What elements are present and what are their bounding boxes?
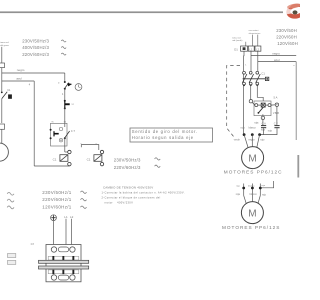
coil voltage list (114, 158, 141, 170)
svg-text:220V/60Hz/3: 220V/60Hz/3 (114, 165, 141, 170)
svg-text:L1: L1 (64, 215, 68, 219)
motor2 junction dots (242, 187, 245, 190)
coil voltage tildes (155, 158, 161, 168)
top-left feeder label (0, 41, 9, 47)
svg-text:220V/60Hz/3: 220V/60Hz/3 (22, 52, 49, 57)
svg-text:L2: L2 (70, 215, 74, 219)
motor M1 (242, 147, 264, 169)
stray bus tabs far left (8, 254, 16, 258)
svg-text:2-Conectar el bloque de conexi: 2-Conectar el bloque de conexiones del (102, 195, 161, 199)
svg-text:toma red: toma red (0, 41, 9, 44)
lever (259, 107, 264, 113)
svg-text:C1: C1 (87, 157, 91, 161)
svg-text:C.F: C.F (274, 123, 279, 126)
svg-text:roja: roja (261, 128, 266, 131)
svg-text:MOTORES PP6/12C: MOTORES PP6/12C (224, 170, 283, 175)
negro line right (251, 55, 296, 57)
svg-text:negro: negro (17, 68, 25, 72)
sentido box (130, 128, 213, 142)
L1 wire (250, 51, 252, 72)
svg-text:MOTORES PP6/12S: MOTORES PP6/12S (222, 225, 280, 230)
svg-text:del gener: del gener (0, 44, 9, 47)
svg-text:D1: D1 (234, 47, 238, 51)
svg-text:con motori: con motori (249, 29, 259, 32)
svg-text:1-Conectar la bobina del conta: 1-Conectar la bobina del contactor n. A4… (102, 190, 185, 194)
wire left drop 2 (1, 99, 3, 123)
svg-text:M: M (248, 208, 256, 219)
svg-text:blanco: blanco (249, 126, 257, 129)
right edge drop wire (295, 62, 297, 140)
svg-text:230V/50H: 230V/50H (276, 28, 297, 33)
centrifugal switch assembly (249, 96, 279, 120)
svg-text:negro: negro (272, 52, 280, 56)
svg-text:400V/50Hz/3: 400V/50Hz/3 (22, 45, 49, 50)
motor M2 (241, 202, 263, 224)
svg-text:u: u (96, 143, 97, 145)
bottom control line (34, 165, 69, 167)
svg-text:roja: roja (268, 129, 273, 132)
motor1 stubs (244, 135, 248, 148)
svg-text:220V/60Hz/1: 220V/60Hz/1 (42, 197, 72, 202)
right edge mark (297, 155, 299, 178)
wire to left motor (1, 129, 3, 143)
azul line (2, 80, 34, 82)
motor2 wires (243, 184, 245, 196)
svg-text:120V/60Hz/1: 120V/60Hz/1 (42, 204, 72, 209)
contact C.T (50, 129, 76, 138)
centrifugal contact bold (64, 100, 75, 110)
svg-text:azul: azul (16, 77, 22, 81)
verde wire (243, 51, 245, 134)
small box left (0, 124, 5, 129)
terminal strip D1 (234, 46, 261, 51)
feeder wire (1, 47, 3, 63)
negro line (2, 72, 65, 74)
motor1 junction dots (243, 133, 246, 136)
wire (64, 89, 66, 101)
svg-text:blanco: blanco (250, 193, 258, 196)
svg-text:Sentido de giro del motor.: Sentido de giro del motor. (132, 129, 198, 134)
control drop wire (64, 73, 66, 82)
L2 wire (257, 51, 259, 72)
svg-text:V.B-B: V.B-B (273, 112, 279, 115)
wire (64, 138, 66, 152)
svg-text:220V/60H: 220V/60H (276, 34, 297, 39)
wire (64, 108, 66, 127)
contactor C1 3ph (242, 71, 268, 86)
svg-text:u: u (80, 143, 81, 145)
svg-text:red (verde): red (verde) (232, 39, 242, 42)
wire left drop (1, 68, 3, 92)
svg-text:120V/60H: 120V/60H (277, 41, 298, 46)
cambio de tension note (102, 185, 185, 204)
junction (64, 137, 66, 139)
left voltage list (3-phase) (22, 39, 49, 57)
azul line right (258, 61, 296, 63)
logo (284, 2, 307, 21)
pole 2 (249, 71, 252, 74)
svg-text:96: 96 (64, 122, 66, 124)
feeder box (0, 63, 5, 68)
switch C1 aux (far left) (1, 89, 12, 99)
svg-text:rojo: rojo (262, 193, 267, 196)
svg-text:toma red: toma red (232, 36, 241, 39)
capacitor C.F (260, 106, 280, 134)
svg-text:CAMBIO DE TENSION 400V/230V: CAMBIO DE TENSION 400V/230V (103, 185, 153, 189)
push button (64, 81, 72, 90)
relay terminal bottom (59, 139, 62, 142)
svg-text:C.T: C.T (71, 130, 76, 133)
svg-text:230V/50Hz/1: 230V/50Hz/1 (42, 190, 72, 195)
svg-text:230V/50Hz/3: 230V/50Hz/3 (22, 39, 49, 44)
tildes (81, 191, 87, 208)
feeder stubs (245, 42, 247, 46)
ground terminal (51, 215, 57, 221)
top right feeder labels (232, 29, 261, 42)
junction dots (243, 84, 245, 86)
svg-text:roja: roja (241, 126, 246, 129)
AC tilde symbols (61, 40, 66, 55)
svg-text:negro: negro (248, 139, 255, 142)
wires below contactor (250, 85, 252, 100)
supply wires to block (53, 221, 55, 246)
single-phase AC tildes left (7, 192, 14, 208)
svg-text:C.A: C.A (262, 123, 267, 126)
pole 1 (243, 71, 246, 74)
pole 3 (256, 71, 259, 74)
svg-text:roja: roja (254, 122, 259, 125)
svg-text:Cf: Cf (31, 242, 34, 246)
header rule (0, 11, 283, 13)
thermal relay box (51, 123, 68, 146)
svg-text:M: M (248, 153, 256, 164)
motor left (half visible) (0, 143, 8, 161)
svg-text:blanco: blanco (248, 186, 255, 188)
coil C1 (right) (87, 150, 104, 166)
svg-text:Horario segun salida eje: Horario segun salida eje (132, 135, 194, 140)
capacitor C.A (261, 120, 266, 135)
azul drop wire (33, 81, 35, 166)
svg-text:rojo: rojo (260, 139, 265, 142)
timer clock (75, 84, 82, 91)
svg-text:5 A: 5 A (274, 96, 278, 100)
wire bend to coil (65, 151, 68, 153)
stub up right (260, 181, 273, 188)
svg-text:roja: roja (236, 193, 241, 196)
svg-text:C1: C1 (261, 72, 265, 76)
terminal block (39, 245, 89, 282)
dashed enclosure (227, 66, 240, 137)
linkage (243, 78, 266, 80)
svg-text:95: 95 (52, 122, 54, 124)
svg-text:alimentacion: alimentacion (249, 32, 262, 35)
svg-text:verde: verde (234, 139, 241, 142)
thermal element (50, 131, 59, 139)
coil2 feed wire (81, 145, 99, 150)
svg-text:C1: C1 (53, 157, 57, 161)
svg-text:230V/50Hz/3: 230V/50Hz/3 (114, 158, 141, 163)
coil C1 (left) (53, 150, 72, 166)
right voltage list (276, 28, 298, 46)
svg-text:motor 400V/230V: motor 400V/230V (105, 200, 134, 204)
relay terminal top (59, 127, 62, 130)
single-phase voltage list (42, 190, 72, 210)
